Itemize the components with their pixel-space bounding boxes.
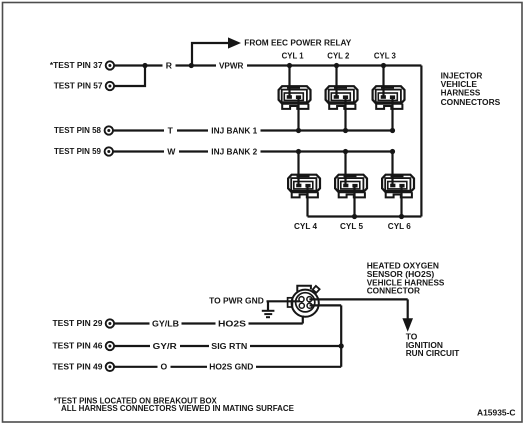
wire HO2S GND row [114,366,341,368]
wire HO2S connector lower right [310,304,342,306]
test pin 49 [106,363,114,371]
label TO IGNITION RUN CIRCUIT [406,332,460,359]
junction dot [399,214,404,219]
wire VPWR bus [114,64,421,66]
wire branch to test pin 57 [114,66,145,87]
label T [164,125,177,136]
svg-text:TEST PIN 29: TEST PIN 29 [53,318,103,328]
svg-text:VPWR: VPWR [219,60,244,70]
label GY/LB [150,318,182,329]
svg-text:O: O [160,362,167,372]
wire HO2S connector bottom [302,316,304,324]
injector connector CYL1 [279,86,311,109]
label VPWR [216,60,247,71]
ground [262,311,275,317]
injector connector CYL6 [382,174,414,197]
wire to HO2S connector left [267,300,301,302]
wire INJ BANK 1 [113,129,393,131]
svg-text:CONNECTOR: CONNECTOR [367,285,421,295]
svg-text:CYL 6: CYL 6 [388,221,411,231]
svg-text:TEST PIN 58: TEST PIN 58 [54,125,101,135]
wire to injector 3 [382,66,384,98]
injector connector CYL3 [373,86,405,109]
label INJECTOR VEHICLE HARNESS CONNECTORS [441,70,501,107]
svg-text:TEST PIN 46: TEST PIN 46 [53,341,103,351]
svg-text:CYL 3: CYL 3 [374,51,396,61]
HO2S connector [288,286,320,317]
wire bottom bus [308,215,422,217]
wire to injector 2 [335,66,337,98]
svg-text:INJ BANK 1: INJ BANK 1 [211,125,257,135]
svg-text:TEST PIN 49: TEST PIN 49 [53,361,103,371]
test pin 37 [106,61,114,69]
junction dot [296,128,301,133]
label GY/R [150,340,180,351]
label HEATED OXYGEN SENSOR [367,260,445,295]
wire to injector 6 [391,152,393,186]
injector connector CYL5 [335,174,367,197]
wire HO2S connector to ignition [309,298,407,300]
test pin 59 [105,147,113,155]
wire right bus [420,66,422,217]
wire HO2S row [114,322,303,324]
wire injector 6 down [400,187,402,217]
junction dot [352,214,357,219]
svg-text:INJ BANK 2: INJ BANK 2 [211,146,257,156]
test pin 29 [106,319,114,327]
label R [163,60,176,71]
svg-text:R: R [166,60,173,70]
label O [158,361,171,372]
wire to injector 5 [344,152,346,186]
wire branch to EEC power relay [192,43,229,66]
svg-text:A15935-C: A15935-C [477,408,516,418]
junction dot [390,128,395,133]
test pin 57 [106,82,114,90]
label HO2S GND [207,361,256,372]
svg-text:RUN CIRCUIT: RUN CIRCUIT [406,348,460,358]
wire INJ BANK 2 [113,150,393,152]
svg-text:CYL 2: CYL 2 [327,51,349,61]
svg-text:CYL 1: CYL 1 [282,51,304,61]
label INJ BANK 2 [208,146,261,157]
junction dot [189,63,194,68]
svg-text:*TEST PIN 37: *TEST PIN 37 [50,60,103,70]
wire sig rtn vertical [340,305,342,366]
svg-text:TEST PIN 59: TEST PIN 59 [54,146,101,156]
test pin 58 [105,126,113,134]
svg-text:CYL 5: CYL 5 [340,221,363,231]
svg-text:CYL 4: CYL 4 [294,221,317,231]
svg-text:HO2S GND: HO2S GND [209,362,253,372]
junction dot [339,343,344,348]
junction dot [343,128,348,133]
label INJ BANK 1 [208,125,261,136]
arrow to ignition [402,318,413,332]
wire ignition drop [407,299,409,318]
svg-text:HO2S: HO2S [218,318,246,328]
svg-text:TO PWR GND: TO PWR GND [209,295,264,305]
wire to injector 1 [288,66,290,98]
wire to injector 4 [297,152,299,186]
junction dot CYL3 [381,63,386,68]
label W [164,146,179,157]
svg-text:CONNECTORS: CONNECTORS [441,97,501,107]
label SIG RTN [209,340,250,351]
wire SIG RTN row [114,345,341,347]
wire to ground [267,301,269,310]
svg-text:ALL HARNESS CONNECTORS VIEWED: ALL HARNESS CONNECTORS VIEWED IN MATING … [61,403,294,413]
svg-text:FROM EEC POWER RELAY: FROM EEC POWER RELAY [244,38,351,48]
wire injector 5 down [353,187,355,217]
label HO2S [216,318,249,329]
wire injector 1 to bank 1 [297,98,299,131]
wire injector 4 down [306,187,308,217]
injector connector CYL4 [288,174,320,197]
svg-text:GY/LB: GY/LB [152,318,179,328]
junction dot [390,149,395,154]
junction dot [142,63,147,68]
svg-text:T: T [168,125,174,135]
junction dot [343,149,348,154]
junction dot CYL1 [287,63,292,68]
svg-text:TEST PIN 57: TEST PIN 57 [54,81,103,91]
junction dot CYL2 [334,63,339,68]
svg-text:GY/R: GY/R [153,341,178,351]
wire injector 3 to bank 1 [391,98,393,131]
wire injector 2 to bank 1 [344,98,346,131]
junction dot [296,149,301,154]
svg-text:SIG RTN: SIG RTN [211,341,247,351]
test pin 46 [106,342,114,350]
arrow to EEC power relay [228,37,241,48]
svg-text:W: W [167,146,176,156]
injector connector CYL2 [326,86,358,109]
